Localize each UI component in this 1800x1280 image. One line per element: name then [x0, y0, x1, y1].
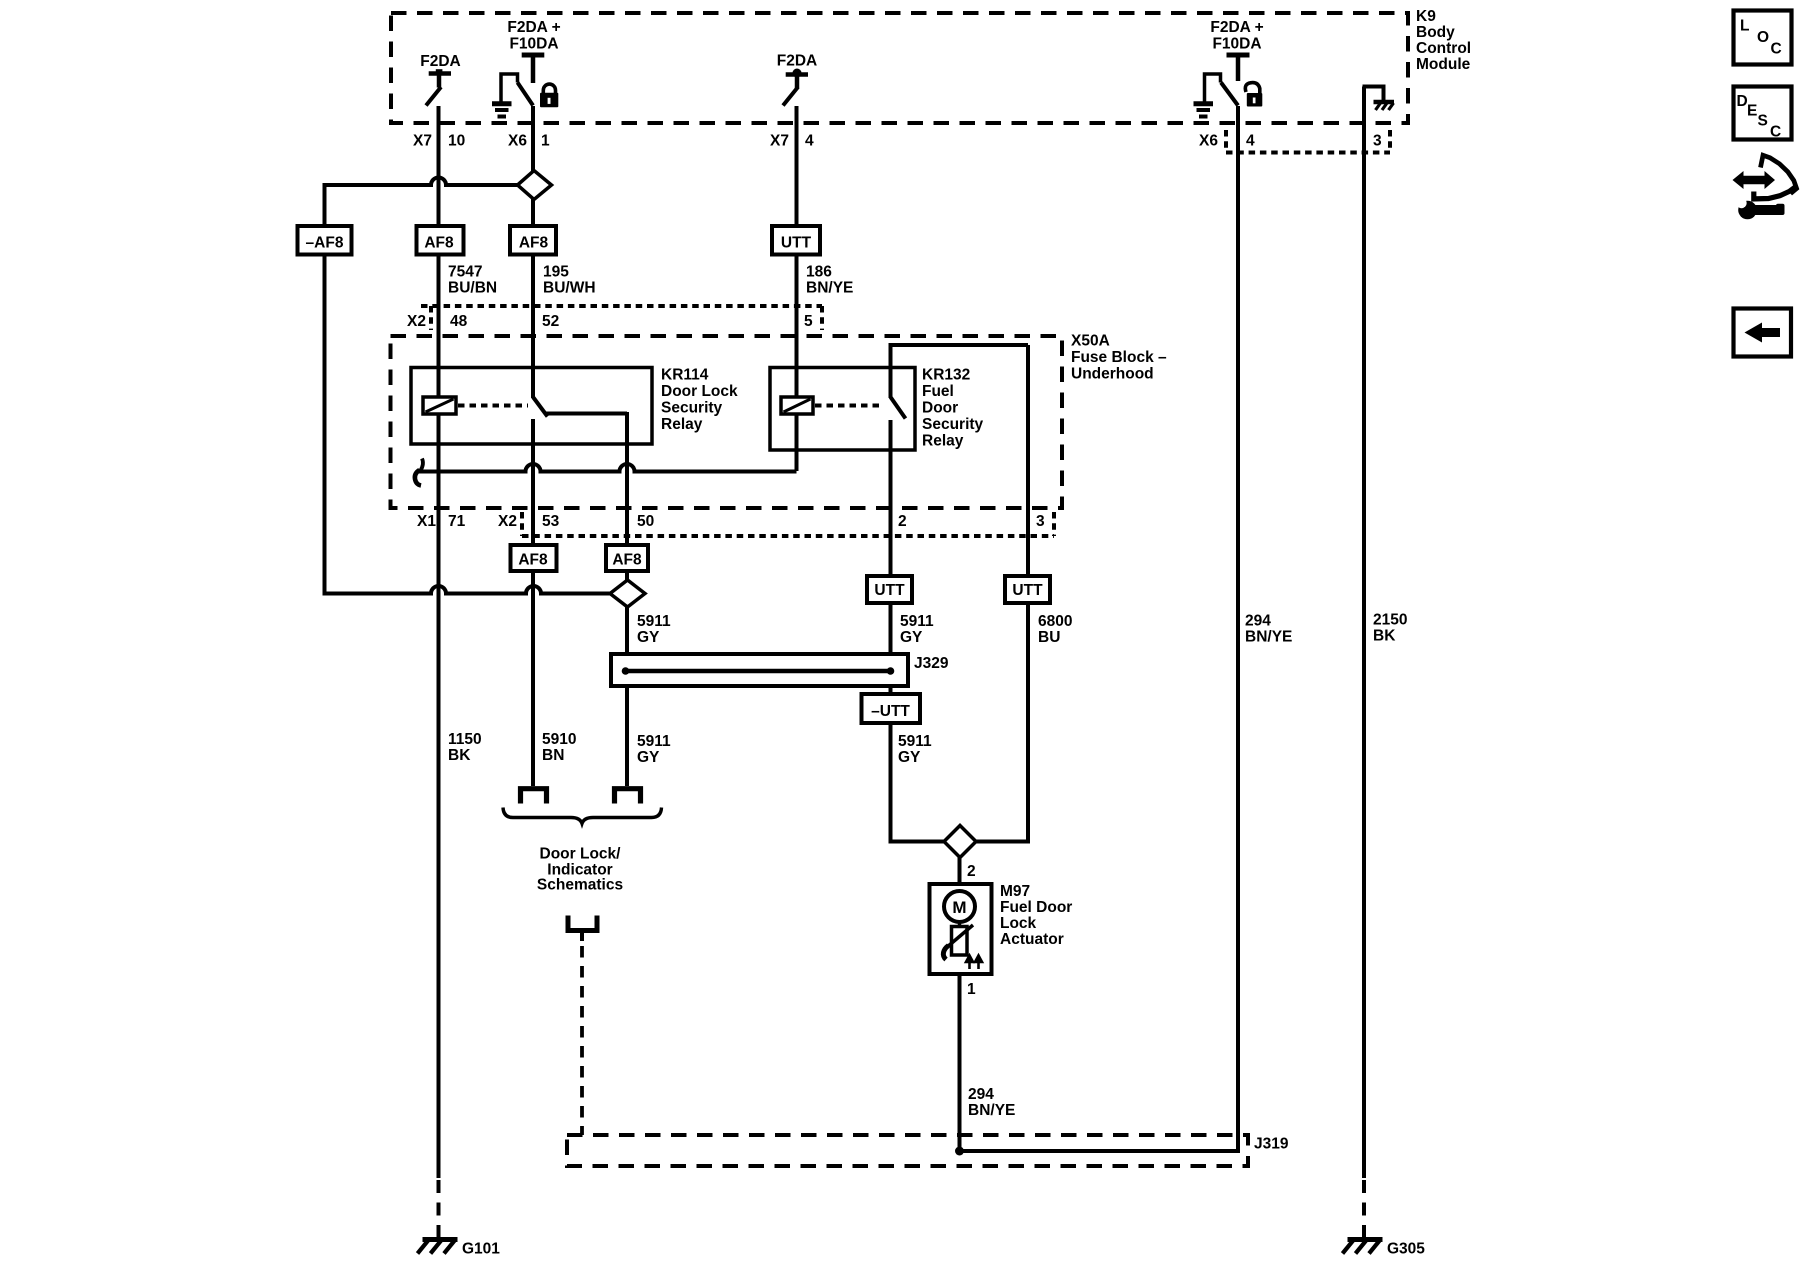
- svg-text:195: 195: [543, 264, 569, 281]
- svg-text:1150: 1150: [448, 731, 482, 748]
- svg-text:GY: GY: [898, 749, 921, 766]
- svg-text:AF8: AF8: [612, 552, 642, 569]
- svg-text:O: O: [1757, 29, 1769, 46]
- svg-text:F2DA: F2DA: [777, 53, 817, 70]
- svg-text:F10DA: F10DA: [1212, 36, 1261, 53]
- svg-text:X7: X7: [413, 133, 432, 150]
- svg-text:S: S: [1758, 113, 1768, 130]
- svg-text:5911: 5911: [637, 733, 671, 750]
- svg-text:L: L: [1740, 18, 1749, 35]
- svg-text:2: 2: [967, 863, 976, 880]
- svg-text:1: 1: [967, 981, 976, 998]
- svg-text:X2: X2: [407, 313, 426, 330]
- svg-text:F2DA: F2DA: [420, 53, 460, 70]
- svg-text:5: 5: [804, 313, 813, 330]
- svg-text:GY: GY: [637, 629, 660, 646]
- svg-text:G305: G305: [1387, 1241, 1425, 1258]
- svg-text:F2DA +: F2DA +: [507, 19, 560, 36]
- svg-text:Fuse Block –: Fuse Block –: [1071, 349, 1167, 366]
- svg-text:BN/YE: BN/YE: [968, 1102, 1015, 1119]
- svg-text:294: 294: [968, 1086, 994, 1103]
- svg-text:Door: Door: [922, 400, 958, 417]
- svg-text:1: 1: [541, 133, 550, 150]
- svg-text:294: 294: [1245, 613, 1271, 630]
- svg-text:GY: GY: [900, 629, 923, 646]
- svg-text:4: 4: [1246, 133, 1255, 150]
- svg-text:Module: Module: [1416, 56, 1471, 73]
- svg-text:Body: Body: [1416, 24, 1455, 41]
- svg-text:2: 2: [898, 513, 907, 530]
- svg-text:BN: BN: [542, 747, 564, 764]
- svg-text:X7: X7: [770, 133, 789, 150]
- svg-text:5911: 5911: [898, 733, 932, 750]
- svg-text:2150: 2150: [1373, 612, 1407, 629]
- svg-text:X6: X6: [508, 133, 527, 150]
- svg-text:BN/YE: BN/YE: [1245, 629, 1292, 646]
- svg-text:J319: J319: [1254, 1136, 1289, 1153]
- svg-text:Fuel: Fuel: [922, 383, 954, 400]
- svg-text:X1: X1: [417, 513, 436, 530]
- svg-text:K9: K9: [1416, 8, 1436, 25]
- svg-text:BN/YE: BN/YE: [806, 280, 853, 297]
- svg-text:Lock: Lock: [1000, 915, 1037, 932]
- svg-text:UTT: UTT: [1012, 582, 1043, 599]
- svg-text:–UTT: –UTT: [871, 703, 910, 720]
- svg-text:AF8: AF8: [519, 235, 549, 252]
- svg-text:52: 52: [542, 313, 559, 330]
- svg-text:F2DA +: F2DA +: [1210, 19, 1263, 36]
- svg-text:AF8: AF8: [518, 552, 548, 569]
- svg-text:AF8: AF8: [424, 235, 454, 252]
- svg-text:6800: 6800: [1038, 613, 1072, 630]
- svg-text:186: 186: [806, 264, 832, 281]
- svg-text:C: C: [1770, 124, 1781, 141]
- svg-text:X2: X2: [498, 513, 517, 530]
- svg-text:7547: 7547: [448, 264, 482, 281]
- svg-text:Door Lock: Door Lock: [661, 383, 738, 400]
- svg-text:KR114: KR114: [661, 367, 709, 384]
- svg-text:Door Lock/: Door Lock/: [540, 846, 622, 863]
- svg-text:48: 48: [450, 313, 468, 330]
- svg-text:E: E: [1747, 103, 1757, 120]
- svg-text:Security: Security: [922, 416, 984, 433]
- svg-text:Relay: Relay: [661, 416, 703, 433]
- svg-text:–AF8: –AF8: [306, 235, 344, 252]
- svg-text:53: 53: [542, 513, 560, 530]
- svg-text:Underhood: Underhood: [1071, 366, 1154, 383]
- svg-text:10: 10: [448, 133, 465, 150]
- svg-text:KR132: KR132: [922, 367, 970, 384]
- svg-text:X6: X6: [1199, 133, 1218, 150]
- svg-text:J329: J329: [914, 655, 949, 672]
- svg-text:M97: M97: [1000, 883, 1030, 900]
- svg-text:5911: 5911: [637, 613, 671, 630]
- svg-text:BU: BU: [1038, 629, 1060, 646]
- svg-text:Security: Security: [661, 400, 723, 417]
- svg-text:UTT: UTT: [781, 235, 812, 252]
- svg-text:5910: 5910: [542, 731, 576, 748]
- svg-text:BU/WH: BU/WH: [543, 280, 596, 297]
- svg-text:Schematics: Schematics: [537, 877, 623, 894]
- svg-text:Relay: Relay: [922, 433, 964, 450]
- svg-text:F10DA: F10DA: [509, 36, 558, 53]
- svg-text:Control: Control: [1416, 40, 1471, 57]
- svg-text:BK: BK: [448, 747, 471, 764]
- svg-text:5911: 5911: [900, 613, 934, 630]
- svg-text:3: 3: [1036, 513, 1045, 530]
- svg-text:Actuator: Actuator: [1000, 931, 1064, 948]
- svg-text:BK: BK: [1373, 628, 1396, 645]
- svg-text:GY: GY: [637, 749, 660, 766]
- svg-text:C: C: [1771, 41, 1782, 58]
- svg-text:Fuel Door: Fuel Door: [1000, 899, 1072, 916]
- svg-text:X50A: X50A: [1071, 333, 1110, 350]
- svg-text:50: 50: [637, 513, 654, 530]
- svg-text:UTT: UTT: [874, 582, 905, 599]
- svg-text:G101: G101: [462, 1241, 500, 1258]
- svg-text:71: 71: [448, 513, 466, 530]
- svg-text:3: 3: [1373, 133, 1382, 150]
- svg-text:BU/BN: BU/BN: [448, 280, 497, 297]
- svg-text:4: 4: [805, 133, 814, 150]
- svg-text:M: M: [952, 898, 966, 917]
